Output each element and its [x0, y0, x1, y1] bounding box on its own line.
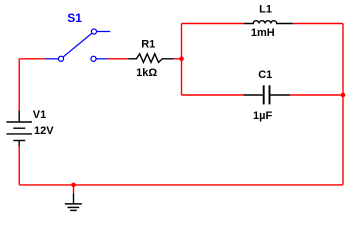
svg-text:S1: S1 [67, 11, 82, 25]
inductor L1 [244, 21, 293, 24]
svg-text:L1: L1 [259, 4, 272, 16]
wire ground drop red part [73, 185, 75, 194]
svg-text:1µF: 1µF [253, 110, 272, 122]
wire top-left horizontal (corner to switch) [19, 58, 46, 60]
svg-text:V1: V1 [33, 109, 46, 121]
svg-text:C1: C1 [258, 69, 272, 81]
switch S1 [46, 29, 110, 61]
node A junction dot (R1 to LC loop) [179, 57, 184, 62]
wire right vertical [342, 24, 344, 185]
node ground junction dot [71, 183, 76, 188]
capacitor C1 [243, 85, 290, 104]
wire left vertical upper (battery top to top-left corner) [18, 59, 20, 111]
wire C1 row right [290, 94, 343, 96]
ground [65, 194, 82, 211]
wire R1 to node A [173, 58, 181, 60]
svg-text:12V: 12V [34, 125, 54, 137]
resistor R1 [128, 54, 173, 63]
svg-text:1kΩ: 1kΩ [136, 67, 157, 79]
node B junction dot (C1 right to right vertical) [341, 93, 346, 98]
wire left vertical lower (battery bottom to bottom wire) [18, 146, 20, 185]
battery V1 [6, 110, 32, 146]
wire L1 right to top-right corner [293, 23, 343, 25]
wire LC loop left vertical [181, 24, 183, 96]
wire C1 row left [182, 94, 244, 96]
wire top to L1 left [182, 23, 245, 25]
wire bottom horizontal [19, 184, 343, 186]
svg-text:1mH: 1mH [251, 27, 275, 39]
wire switch to R1 [108, 58, 129, 60]
svg-text:R1: R1 [141, 39, 155, 51]
